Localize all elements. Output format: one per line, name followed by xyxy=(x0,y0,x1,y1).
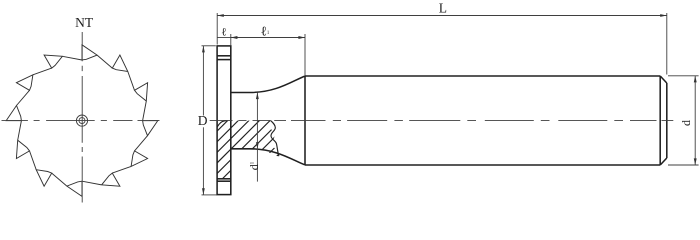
dimension L arrow right xyxy=(660,14,667,17)
dimension d1 line xyxy=(256,93,258,182)
dimension l1 line xyxy=(231,37,305,39)
dimension d line xyxy=(694,76,696,165)
tooth 3 (face, tip triangle, relief back) xyxy=(135,83,148,121)
svg-text:d: d xyxy=(679,120,693,126)
dimension D: extension line bottom xyxy=(202,194,218,196)
center mark inner circle xyxy=(79,118,85,124)
disc tooth root line lower 1 xyxy=(217,178,231,180)
dimension L: extension line right xyxy=(666,13,668,75)
svg-text:L: L xyxy=(439,0,447,15)
dimension l1 extension line right (and neck tangent ext.) xyxy=(304,34,306,76)
dimension d1 arrow top xyxy=(256,93,259,100)
neck-to-shank concave curve upper xyxy=(250,76,305,92)
dimension d: extension line top (shank edge extended) xyxy=(668,75,699,77)
shank top edge xyxy=(305,75,660,77)
dimension l: extension line (disc right edge, up) xyxy=(230,34,232,45)
tooth 8 (face, tip triangle, relief back) xyxy=(30,151,52,186)
center mark outer circle xyxy=(76,115,87,126)
freehand break line of broken-out section xyxy=(271,121,279,157)
dimension d: extension line bottom xyxy=(668,164,699,166)
disc tooth root line upper 2 xyxy=(217,59,231,61)
shank end face xyxy=(666,83,668,158)
dimension L line xyxy=(217,15,667,17)
svg-text:D: D xyxy=(198,113,208,128)
side view: cutter disc outline xyxy=(217,46,231,195)
dimension D arrow top xyxy=(202,46,205,53)
shank chamfer edge line xyxy=(659,76,661,165)
dimension L arrow left xyxy=(217,14,224,17)
dimension l1 arrow right xyxy=(298,36,305,39)
tooth 5 (face, tip triangle, relief back) xyxy=(112,151,147,173)
side view centerline xyxy=(210,119,674,121)
front view: cutter body (12 teeth) xyxy=(6,45,158,197)
chamfer diagonal top xyxy=(660,76,667,83)
tooth 11 (face, tip triangle, relief back) xyxy=(16,68,51,90)
shank bottom edge xyxy=(305,164,660,166)
dimension D line lower part xyxy=(202,127,204,195)
chamfer diagonal bottom xyxy=(660,158,667,165)
neck/shank tangent transition line xyxy=(304,76,306,165)
tooth 1 (face, tip triangle, relief back) xyxy=(82,45,112,68)
tooth 9 (face, tip triangle, relief back) xyxy=(16,121,29,159)
tooth 12 (face, tip triangle, relief back) xyxy=(44,55,82,68)
front view horizontal centerline xyxy=(2,120,160,122)
small fillet arc detail at disc/bore corner in section xyxy=(217,121,226,127)
tooth 6 (face, tip triangle, relief back) xyxy=(82,173,120,186)
disc tooth root line lower 2 xyxy=(217,180,231,182)
neck lower line xyxy=(231,148,250,150)
dimension l line xyxy=(217,37,231,39)
dimension L: extension line left xyxy=(216,13,218,45)
dimension d1 arrow bottom xyxy=(256,142,259,149)
dimension d arrow bottom xyxy=(694,158,697,165)
tooth 4 (face, tip triangle, relief back) xyxy=(135,121,158,151)
svg-text:NT: NT xyxy=(75,15,94,30)
dimension D: extension line top xyxy=(202,45,216,47)
front view vertical centerline xyxy=(81,32,83,203)
neck-to-shank concave curve lower xyxy=(250,149,305,165)
dimension l1 arrow left xyxy=(231,36,238,39)
dimension D line upper part xyxy=(202,46,204,116)
disc tooth root line upper 1 xyxy=(217,55,231,57)
dimension D arrow bottom xyxy=(202,188,205,195)
svg-text:ℓ: ℓ xyxy=(221,27,226,39)
tooth 10 (face, tip triangle, relief back) xyxy=(6,90,29,120)
neck upper line xyxy=(231,92,250,94)
dimension d arrow top xyxy=(694,76,697,83)
tooth 2 (face, tip triangle, relief back) xyxy=(112,55,134,90)
tooth 7 (face, tip triangle, relief back) xyxy=(52,173,82,196)
